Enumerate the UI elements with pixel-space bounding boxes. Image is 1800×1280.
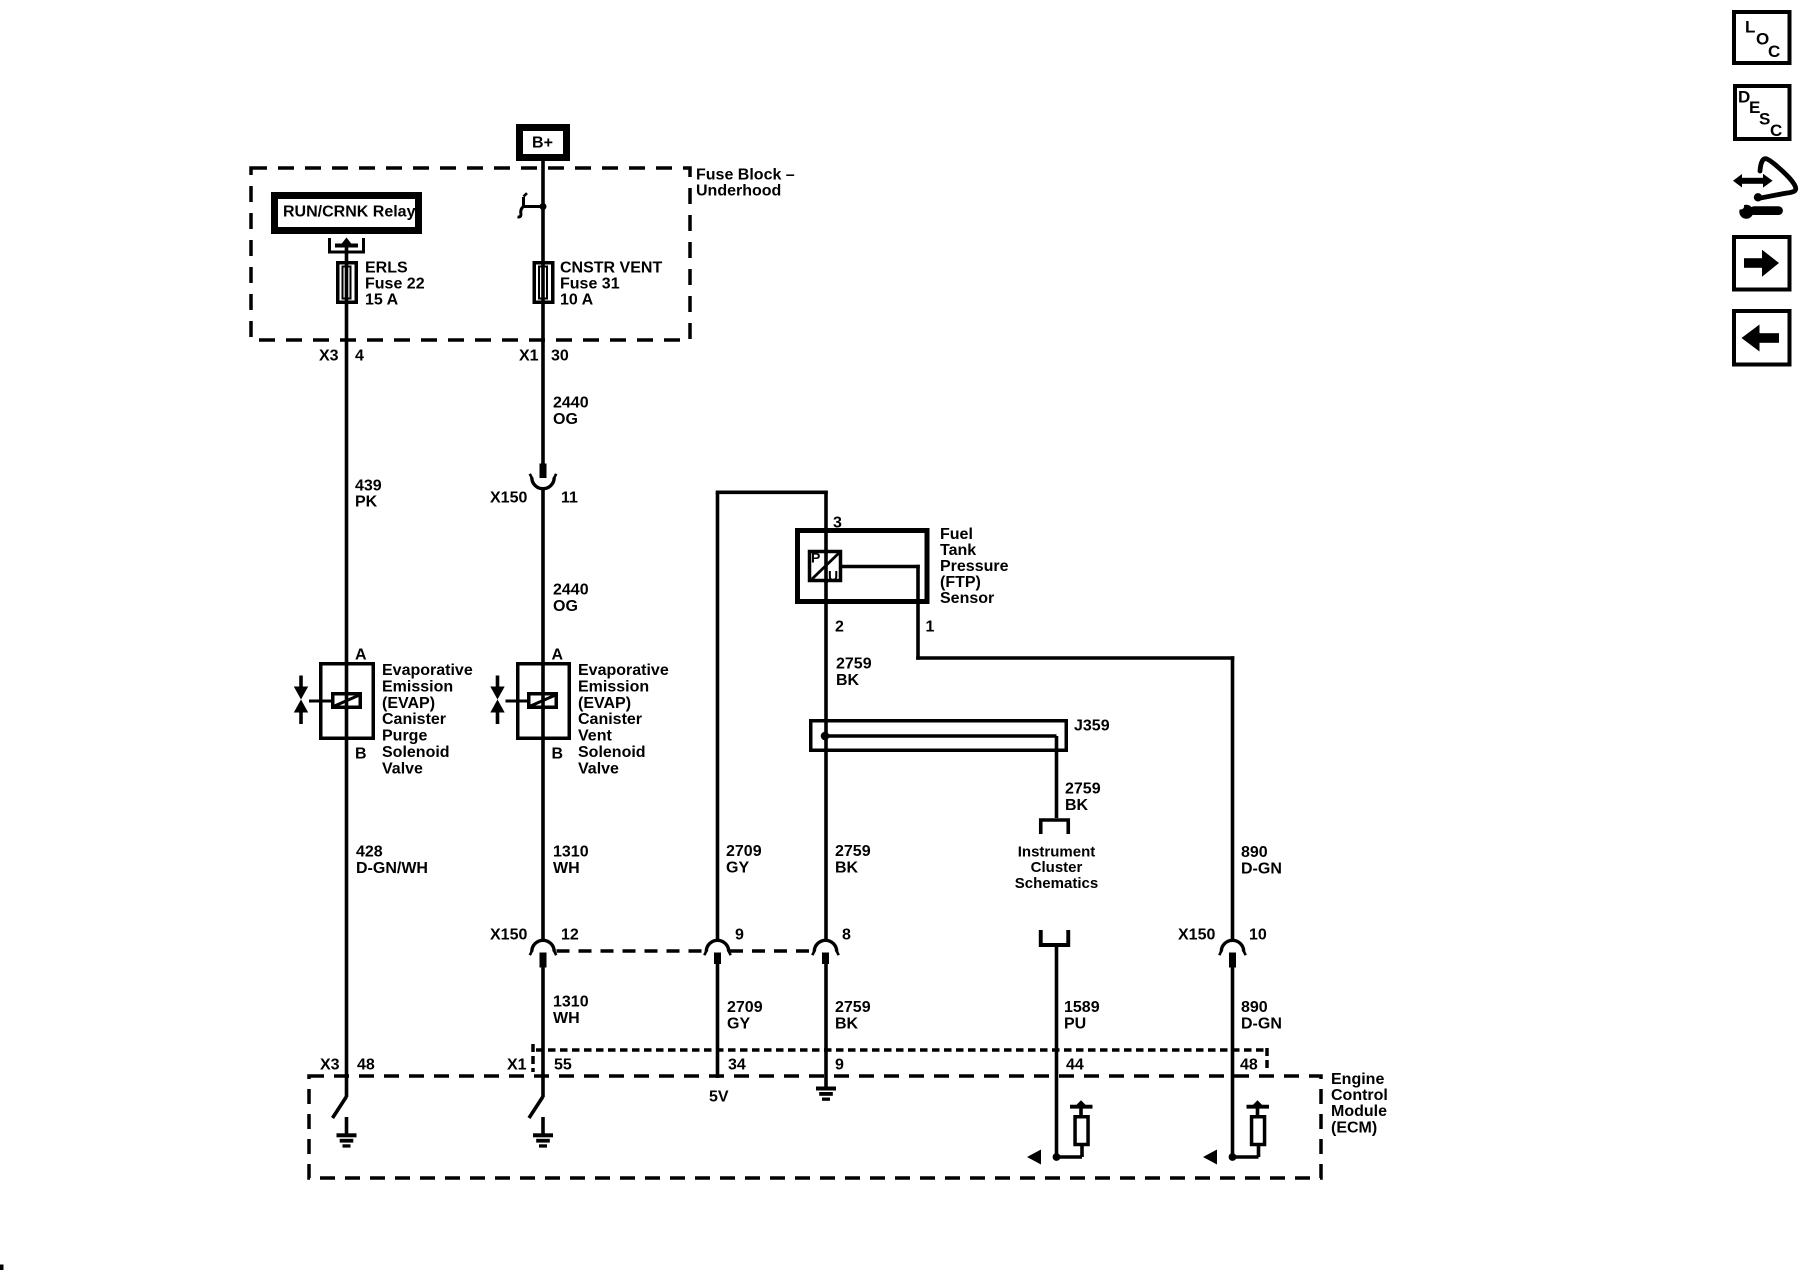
svg-text:A: A [552, 646, 564, 663]
svg-text:Underhood: Underhood [696, 183, 781, 200]
svg-text:Vent: Vent [578, 728, 612, 745]
svg-text:(ECM): (ECM) [1331, 1119, 1377, 1136]
svg-text:30: 30 [551, 348, 569, 365]
svg-text:BK: BK [1065, 797, 1089, 814]
svg-text:Valve: Valve [382, 761, 423, 778]
svg-text:Evaporative: Evaporative [382, 662, 473, 679]
svg-text:RUN/CRNK Relay: RUN/CRNK Relay [283, 203, 416, 220]
svg-text:(EVAP): (EVAP) [578, 695, 631, 712]
svg-text:D-GN/WH: D-GN/WH [356, 860, 428, 877]
svg-text:Emission: Emission [578, 678, 649, 695]
svg-text:8: 8 [842, 927, 851, 944]
svg-text:48: 48 [357, 1057, 375, 1074]
svg-text:44: 44 [1066, 1057, 1084, 1074]
svg-text:2440: 2440 [553, 582, 589, 599]
svg-text:X150: X150 [1178, 927, 1215, 944]
svg-text:34: 34 [728, 1057, 746, 1074]
svg-text:ERLS: ERLS [365, 259, 408, 276]
svg-text:1310: 1310 [553, 844, 589, 861]
svg-text:Solenoid: Solenoid [382, 744, 450, 761]
svg-text:1: 1 [926, 619, 935, 636]
svg-text:Instrument: Instrument [1018, 843, 1096, 860]
svg-text:WH: WH [553, 1010, 580, 1027]
svg-text:P: P [811, 550, 820, 566]
svg-text:X1: X1 [507, 1057, 527, 1074]
svg-text:L: L [1745, 17, 1755, 36]
svg-text:C: C [1770, 121, 1782, 140]
svg-text:48: 48 [1240, 1057, 1258, 1074]
svg-text:2759: 2759 [835, 843, 871, 860]
svg-text:Emission: Emission [382, 678, 453, 695]
svg-text:X3: X3 [319, 348, 339, 365]
svg-text:GY: GY [726, 860, 749, 877]
svg-text:Engine: Engine [1331, 1071, 1384, 1088]
svg-text:1589: 1589 [1064, 999, 1100, 1016]
svg-text:10 A: 10 A [560, 291, 594, 308]
svg-text:BK: BK [835, 860, 859, 877]
svg-text:Canister: Canister [382, 711, 446, 728]
svg-text:9: 9 [835, 1057, 844, 1074]
svg-text:Pressure: Pressure [940, 558, 1009, 575]
svg-text:890: 890 [1241, 844, 1268, 861]
svg-text:890: 890 [1241, 999, 1268, 1016]
svg-text:PK: PK [355, 494, 378, 511]
svg-text:S: S [1759, 109, 1770, 128]
svg-text:BK: BK [836, 672, 860, 689]
svg-text:Purge: Purge [382, 728, 427, 745]
svg-text:55: 55 [554, 1057, 572, 1074]
svg-text:439: 439 [355, 478, 382, 495]
svg-text:(EVAP): (EVAP) [382, 695, 435, 712]
svg-text:Evaporative: Evaporative [578, 662, 669, 679]
svg-text:BK: BK [835, 1016, 859, 1033]
svg-text:X150: X150 [490, 489, 527, 506]
svg-text:J359: J359 [1074, 718, 1110, 735]
svg-text:2759: 2759 [835, 999, 871, 1016]
svg-text:C: C [1768, 42, 1780, 61]
svg-text:A: A [355, 646, 367, 663]
svg-text:B: B [355, 746, 367, 763]
svg-text:Solenoid: Solenoid [578, 744, 646, 761]
svg-text:GY: GY [727, 1016, 750, 1033]
svg-text:10: 10 [1249, 927, 1267, 944]
svg-text:2709: 2709 [727, 999, 763, 1016]
svg-text:11: 11 [561, 489, 578, 506]
svg-text:Fuse 22: Fuse 22 [365, 275, 425, 292]
svg-text:PU: PU [1064, 1016, 1086, 1033]
svg-text:Tank: Tank [940, 542, 976, 559]
svg-text:2709: 2709 [726, 843, 762, 860]
svg-text:Schematics: Schematics [1015, 875, 1098, 892]
svg-text:15 A: 15 A [365, 291, 399, 308]
svg-text:9: 9 [735, 927, 744, 944]
svg-text:3: 3 [833, 515, 842, 532]
svg-text:5V: 5V [709, 1089, 729, 1106]
svg-text:Sensor: Sensor [940, 590, 994, 607]
svg-text:2: 2 [835, 619, 844, 636]
svg-text:Fuse Block –: Fuse Block – [696, 166, 795, 183]
svg-text:X3: X3 [320, 1057, 340, 1074]
svg-text:U: U [828, 568, 838, 584]
svg-text:X150: X150 [490, 927, 527, 944]
svg-text:B: B [552, 746, 564, 763]
svg-text:1310: 1310 [553, 994, 589, 1011]
svg-text:D-GN: D-GN [1241, 1016, 1282, 1033]
svg-text:2759: 2759 [1065, 781, 1101, 798]
svg-text:Valve: Valve [578, 761, 619, 778]
svg-text:Canister: Canister [578, 711, 642, 728]
svg-text:4: 4 [355, 348, 364, 365]
svg-text:D-GN: D-GN [1241, 861, 1282, 878]
svg-text:Cluster: Cluster [1031, 859, 1083, 876]
svg-text:OG: OG [553, 411, 578, 428]
svg-text:OG: OG [553, 598, 578, 615]
svg-text:Fuel: Fuel [940, 526, 973, 543]
svg-text:CNSTR VENT: CNSTR VENT [560, 259, 662, 276]
svg-text:WH: WH [553, 860, 580, 877]
svg-text:12: 12 [561, 927, 579, 944]
svg-text:428: 428 [356, 844, 383, 861]
svg-text:Control: Control [1331, 1087, 1388, 1104]
svg-text:X1: X1 [519, 348, 539, 365]
svg-text:Fuse 31: Fuse 31 [560, 275, 620, 292]
svg-text:Module: Module [1331, 1103, 1387, 1120]
svg-text:2440: 2440 [553, 394, 589, 411]
svg-text:B+: B+ [532, 135, 553, 152]
svg-text:(FTP): (FTP) [940, 574, 981, 591]
svg-text:2759: 2759 [836, 656, 872, 673]
